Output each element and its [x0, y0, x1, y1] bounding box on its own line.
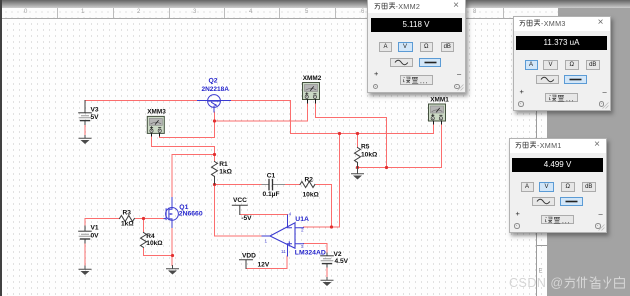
multimeter window XMM1: [509, 138, 608, 233]
svg-text:V3: V3: [91, 106, 99, 113]
svg-text:V1: V1: [91, 225, 99, 232]
wire R3 to Q1 gate: [136, 218, 165, 220]
VDD power symbol: [240, 253, 270, 269]
junction node R3 R4 gate: [142, 217, 145, 220]
wire V1 bottom to ground: [84, 243, 86, 267]
wire node down to R4: [143, 219, 145, 233]
wire R4 bottom to ground node: [144, 249, 173, 256]
svg-text:VDD: VDD: [242, 253, 256, 260]
wire V1 to R3: [85, 219, 120, 227]
junction node Q1 source ground: [171, 254, 174, 257]
VCC power symbol: [232, 197, 252, 222]
wire opamp output to R1 bottom node: [215, 185, 263, 237]
ground for R5: [352, 168, 364, 180]
wire R1 node to Q1 drain: [172, 155, 215, 198]
wire Q2 right lead to node rail: [231, 101, 291, 134]
svg-text:11: 11: [281, 249, 286, 254]
svg-text:R1: R1: [219, 161, 228, 168]
svg-text:5V: 5V: [91, 114, 100, 121]
ground for V3: [79, 136, 91, 145]
svg-text:R4: R4: [146, 233, 155, 240]
wire V3 to Q2 base: [85, 100, 198, 102]
wire V3 bottom to ground: [84, 124, 86, 136]
svg-text:0V: 0V: [91, 233, 100, 240]
wire noninverting input to V2: [304, 244, 328, 254]
multimeter window XMM3: [513, 16, 611, 111]
svg-text:LM324AD: LM324AD: [295, 249, 326, 256]
wire VCC to opamp V+ pin: [240, 214, 288, 216]
wire XMM1 minus to ground rail: [358, 124, 442, 168]
multimeter icon XMM2: [303, 75, 322, 103]
svg-text:XMM2: XMM2: [303, 75, 322, 82]
svg-text:2: 2: [301, 228, 304, 233]
wire Q1 source to ground: [171, 228, 173, 266]
wire rail to R5: [357, 134, 359, 148]
resistor R3: [120, 210, 135, 228]
svg-text:12V: 12V: [258, 262, 270, 269]
wire VDD to opamp V- pin: [247, 256, 288, 269]
multimeter icon XMM3: [147, 108, 166, 136]
svg-text:2N2218A: 2N2218A: [202, 86, 230, 93]
svg-text:R2: R2: [305, 176, 314, 183]
junction node R1 top branch: [213, 153, 216, 156]
wire R1 bottom node to C1: [215, 184, 263, 186]
svg-text:1: 1: [265, 238, 268, 243]
svg-text:VCC: VCC: [233, 197, 247, 204]
svg-text:R5: R5: [361, 143, 370, 150]
wire R2 to opamp inverting input: [316, 185, 332, 228]
svg-text:1kΩ: 1kΩ: [219, 169, 232, 176]
svg-text:C1: C1: [267, 172, 276, 179]
svg-text:1kΩ: 1kΩ: [121, 221, 134, 228]
junction node feedback on rail: [338, 132, 341, 135]
wire node to XMM2 plus: [215, 103, 308, 121]
sheet border line: [537, 19, 548, 296]
wire inverting input rail: [304, 226, 340, 228]
svg-text:R3: R3: [123, 210, 132, 217]
wire feedback up to rail: [339, 134, 341, 228]
junction node inverting input: [330, 225, 333, 228]
transistor Q2: [198, 95, 231, 112]
junction node R5 top: [356, 132, 359, 135]
svg-text:10kΩ: 10kΩ: [303, 191, 320, 198]
op-amp U1A: [262, 215, 304, 256]
ground for Q1 source and R4: [167, 266, 179, 275]
wire XMM2 minus down to ground rail: [316, 103, 387, 168]
junction node XMM2 minus on ground rail: [385, 166, 388, 169]
op-amp pin numbers: [265, 212, 305, 254]
wire to XMM3 minus: [160, 136, 215, 138]
multimeter window XMM2: [367, 0, 466, 93]
junction node R1 bottom: [213, 183, 216, 186]
resistor R4: [141, 233, 164, 248]
svg-text:10kΩ: 10kΩ: [361, 152, 378, 159]
svg-text:-5V: -5V: [241, 215, 252, 222]
svg-text:4.5V: 4.5V: [335, 258, 349, 265]
ground for V2: [321, 278, 333, 287]
wire XMM3 plus to R1 top: [152, 136, 215, 162]
resistor R1: [212, 161, 233, 184]
transistor Q1: [164, 198, 178, 228]
svg-text:XMM3: XMM3: [147, 108, 166, 115]
svg-text:U1A: U1A: [295, 216, 309, 223]
svg-text:XMM1: XMM1: [430, 96, 449, 103]
wire V2 bottom to ground: [326, 267, 328, 278]
capacitor C1: [262, 172, 285, 198]
multimeter icon XMM1: [429, 96, 450, 124]
wire Q2 emitter down: [214, 112, 216, 138]
resistor R5: [355, 143, 379, 167]
wire C1 to R2: [285, 184, 301, 186]
svg-text:E: E: [539, 269, 543, 275]
resistor R2: [300, 176, 320, 198]
wire rail to XMM1 plus: [291, 124, 434, 134]
label Q2: [202, 78, 230, 93]
junction node below Q2: [213, 119, 216, 122]
svg-text:4: 4: [289, 212, 292, 217]
battery V3: [79, 101, 99, 125]
battery V1: [79, 225, 99, 243]
ground for V1: [79, 266, 91, 275]
label U1A: [295, 216, 326, 256]
battery V2: [321, 251, 349, 267]
svg-text:Q2: Q2: [209, 78, 218, 85]
svg-text:10kΩ: 10kΩ: [146, 240, 163, 247]
junction node R5 bottom ground rail: [356, 166, 359, 169]
svg-text:2N6660: 2N6660: [179, 210, 203, 217]
label Q1: [179, 204, 203, 218]
svg-text:0.1µF: 0.1µF: [263, 191, 280, 198]
